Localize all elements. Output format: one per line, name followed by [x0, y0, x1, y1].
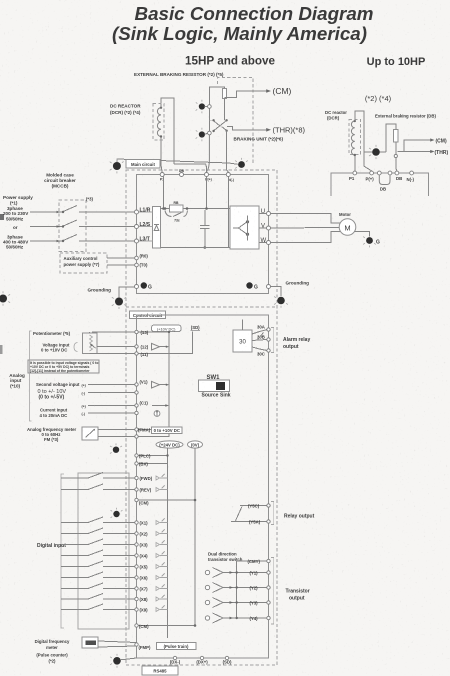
control circuit solid box: [137, 315, 269, 658]
switch digital input (FWD): [61, 477, 88, 479]
amplifier on V1: [152, 381, 170, 388]
terminal (X7): [135, 587, 138, 590]
ground symbol near braking unit: [235, 158, 248, 168]
margin artifact marks: [0, 214, 4, 220]
wire mini DCR loop top and right leg: [355, 111, 372, 171]
ground symbol motor G: [363, 237, 380, 248]
terminal (X9): [135, 608, 138, 611]
terminal N(-): [226, 173, 230, 177]
relay Y5 contact: [231, 506, 267, 522]
rectifier box: [153, 207, 161, 249]
wire grounding left: [119, 287, 135, 298]
wire resistor lower leg: [224, 98, 226, 120]
terminal (Y1): [267, 571, 270, 574]
label Main circuit: [126, 160, 160, 169]
terminal (X6): [135, 576, 138, 579]
diode mark (X2): [156, 530, 168, 536]
diode in rectifier: [154, 225, 159, 230]
terminal (X5): [135, 565, 138, 568]
wire braking resistor loop left leg: [209, 87, 224, 133]
terminal mini P1: [353, 171, 357, 175]
ground symbol G right inside: [246, 282, 258, 290]
screw terminal dot lower: [196, 128, 208, 142]
IGBT symbol in bridge: [233, 216, 249, 241]
resistor external braking resistor (15HP): [223, 89, 227, 99]
label pulse train: [157, 643, 197, 650]
terminal (V1): [135, 383, 138, 386]
ground symbol left margin: [0, 291, 10, 306]
label 0V oval: [188, 441, 203, 448]
label auxiliary control power supply: [60, 253, 107, 273]
switch digital input (X9): [61, 609, 88, 611]
terminal (X4): [135, 554, 138, 557]
terminal braking unit P screw: [208, 105, 212, 109]
wire mini DB resistor loop: [386, 124, 396, 152]
meter FM box: [82, 427, 98, 440]
wire BX row: [139, 463, 168, 465]
ground symbol right: [274, 297, 288, 308]
motor M: [339, 219, 356, 236]
main circuit solid box: [137, 175, 269, 294]
wire 11 row: [90, 332, 193, 354]
terminal braking unit N screw: [208, 131, 212, 135]
label 0 to +10V DC on FMA: [152, 427, 183, 433]
terminal U: [259, 213, 267, 215]
meter digital frequency box: [82, 637, 98, 648]
wire PLC row: [139, 455, 168, 457]
wire mini arrow (THR): [398, 150, 449, 156]
enclosure dashed box: [126, 170, 277, 665]
diode mark (X6): [156, 574, 168, 580]
terminal (13): [135, 330, 138, 333]
diode mark (X9): [156, 606, 168, 612]
diode mark (X7): [156, 585, 168, 591]
photocoupler dot upper: [110, 443, 122, 453]
wire rail 0V: [194, 448, 196, 625]
terminal L3/T: [135, 239, 139, 243]
wire mini arrow (CM): [404, 138, 447, 151]
switch digital input (X1): [61, 522, 88, 524]
terminal W: [259, 242, 267, 244]
wire CM row: [139, 499, 196, 501]
bracket alarm relay: [271, 328, 274, 353]
wire FMA row: [98, 429, 181, 431]
amplifier on 12: [152, 343, 170, 350]
switch digital input (X5): [61, 566, 88, 568]
wire N(-) stem: [227, 177, 229, 248]
terminal (C1): [135, 404, 138, 407]
wire meter to FMP: [98, 641, 137, 643]
terminal P(+): [205, 173, 209, 177]
capacitor DC bus: [200, 210, 210, 249]
junction dots MCCB blades: [62, 211, 64, 213]
terminal (Y5A): [267, 520, 270, 523]
diode mark (X1): [156, 519, 168, 525]
relay 30 alarm box: [233, 330, 252, 352]
label digital frequency meter: [35, 639, 70, 664]
switch MCCB pole S: [62, 220, 77, 227]
wire P1 stem: [163, 177, 165, 209]
terminal G left: [135, 285, 139, 289]
wire CMY row: [237, 560, 267, 562]
photocoupler dot lower: [111, 508, 123, 518]
wire T0: [107, 264, 135, 266]
switch digital input (REV): [61, 489, 88, 491]
terminal (X2): [135, 532, 138, 535]
note box: [28, 360, 99, 373]
contact 30B: [252, 340, 267, 341]
dashed option box around DCR coil: [153, 104, 164, 141]
wire L1 into rectifier: [139, 211, 153, 213]
wire left leg to P(+): [207, 135, 210, 172]
blade alarm relay: [258, 333, 264, 340]
wire FM meter common row: [98, 436, 169, 438]
transistor output (Y3): [205, 598, 266, 608]
wire grounding right: [271, 287, 282, 297]
current source symbol: [154, 410, 160, 417]
bracket relay output: [271, 502, 274, 525]
terminal (SD): [225, 656, 228, 659]
diode mark (FWD): [156, 474, 168, 480]
terminal (11): [135, 352, 138, 355]
wire R0: [107, 257, 135, 259]
switch digital input (X2): [61, 533, 88, 535]
bracket analog input: [30, 331, 32, 421]
switch MCCB pole T: [62, 235, 77, 242]
wire motor ground: [355, 232, 370, 237]
breaker MCCB dashed box: [59, 200, 86, 252]
terminal V: [259, 227, 267, 229]
inverter bridge box: [230, 206, 259, 249]
screw terminal dot upper: [196, 100, 208, 114]
wire DC bus positive: [161, 208, 231, 210]
resistor charging: [170, 205, 184, 212]
terminal mini P(+): [370, 171, 374, 175]
arrow on C1 row: [152, 404, 169, 406]
wire CM bottom row: [139, 625, 196, 627]
terminal mini N(-): [410, 171, 414, 175]
terminal (11) second: [135, 391, 138, 394]
terminal (R0): [135, 256, 139, 260]
diode mark (X4): [156, 552, 168, 558]
ground symbol top-left: [110, 159, 124, 174]
transistor output (Y4): [205, 613, 266, 623]
label MCCB: [44, 173, 93, 202]
wire phase R input: [30, 211, 62, 213]
potentiometer: [83, 332, 98, 354]
mini inverter enclosure outline: [331, 173, 429, 196]
terminal (FMA): [135, 428, 138, 431]
wire DCR loop top: [161, 98, 174, 164]
wire 13 row: [92, 331, 169, 333]
label +10V DC: [152, 325, 182, 332]
wire DCR loop P1 leg: [161, 137, 162, 173]
terminal DB: [180, 173, 184, 177]
terminal (Y4): [267, 616, 270, 619]
terminal G right: [267, 285, 271, 289]
thermal relay contact in braking unit: [209, 119, 227, 132]
wire mini DB lower leg: [396, 142, 397, 171]
dashed option box around mini DCR coil: [349, 120, 361, 155]
wire W to motor: [271, 232, 341, 243]
bracket digital input: [61, 474, 64, 628]
switch digital input (X8): [61, 598, 88, 600]
dashed box around braking unit option: [218, 78, 254, 166]
terminal L1/R: [135, 210, 139, 214]
digital input group box: [78, 473, 129, 629]
bracket transistor output: [271, 558, 274, 625]
wire phase T input: [30, 240, 62, 242]
wire arrow to (CM) 15HP: [225, 91, 267, 98]
wire DC bus negative: [161, 247, 231, 249]
wire rail +24V: [167, 448, 169, 638]
diode mark (X8): [156, 595, 168, 601]
diode mark (X5): [156, 563, 168, 569]
contact 30A: [252, 330, 267, 334]
terminal (Y3): [267, 601, 270, 604]
terminal (DX-): [173, 656, 176, 659]
terminal mini DB: [395, 171, 399, 175]
label power supply: [3, 195, 33, 250]
terminal (X8): [135, 597, 138, 600]
terminal (X3): [135, 543, 138, 546]
ground symbol left: [112, 297, 126, 309]
diode mark (REV): [156, 486, 168, 492]
ground symbol G left inside: [141, 282, 152, 290]
terminal (Y5C): [267, 504, 270, 507]
terminal mini resistor mid: [394, 154, 397, 157]
switch charging bypass 73c: [165, 211, 172, 217]
terminal (12): [135, 345, 138, 348]
contact 30C: [252, 347, 267, 350]
wire transistor common rail: [236, 561, 238, 618]
terminal (T0): [135, 263, 139, 267]
wire phase S input: [30, 226, 62, 228]
terminal (FMP): [135, 643, 138, 646]
terminal (REV): [135, 488, 138, 491]
terminal (11) third: [135, 411, 138, 414]
wire analog rail vA: [168, 332, 170, 437]
wire arrow to (THR) 15HP: [227, 127, 267, 130]
terminal (FWD): [135, 476, 138, 479]
transistor output (Y2): [205, 583, 266, 593]
wire mini DCR left leg: [354, 155, 356, 171]
switch SW1 sink/source: [199, 375, 231, 399]
terminal P1: [160, 173, 164, 177]
wire 12 row wiper: [97, 346, 135, 348]
ground symbol bottom left: [110, 654, 136, 668]
switch digital input (X4): [61, 555, 88, 557]
label Control circuit: [130, 311, 166, 319]
RS485 connector box: [142, 666, 178, 675]
terminal (Y2): [267, 586, 270, 589]
dashed divider main/control: [126, 306, 277, 308]
inductor mini DCR coil: [351, 121, 354, 155]
ground bus wire across top: [117, 159, 238, 164]
switch digital input (X7): [61, 588, 88, 590]
wire P(+) stem: [206, 177, 208, 209]
diode mark (X3): [156, 541, 168, 547]
switch MCCB pole R: [62, 206, 77, 213]
label +24V DC oval: [156, 441, 183, 448]
resistor mini external braking resistor: [394, 130, 398, 143]
transistor output (Y1): [205, 568, 266, 578]
wire U to motor: [271, 214, 341, 224]
terminal (X1): [135, 521, 138, 524]
terminal (DX+): [200, 656, 203, 659]
switch digital input (X6): [61, 577, 88, 579]
wire DCR to P(+): [174, 164, 207, 172]
wire V to motor: [271, 227, 340, 230]
inductor DCR coil (15HP): [157, 108, 161, 137]
switch digital input (X3): [61, 544, 88, 546]
jumper DB U-link: [377, 171, 381, 175]
wire mini junction bus with ground dot: [364, 151, 386, 153]
ground symbol mini diagram: [369, 145, 380, 159]
terminal L2/S: [135, 225, 139, 229]
wire braking unit right leg to N(-): [227, 131, 229, 172]
